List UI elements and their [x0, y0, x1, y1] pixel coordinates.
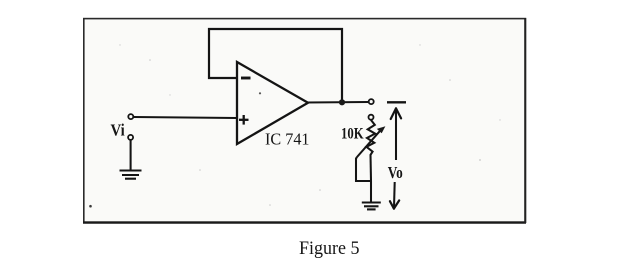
potentiometer R1 10K (zigzag body) — [366, 120, 375, 155]
op-amp U1 IC 741 — [237, 62, 308, 144]
svg-text:Vo: Vo — [388, 163, 403, 182]
pin label minus (inverting input) — [241, 77, 251, 80]
terminal output upper (open circle) — [369, 99, 374, 104]
svg-text:IC 741: IC 741 — [265, 129, 310, 148]
wire potentiometer bottom lead — [369, 155, 372, 182]
ground (input side) — [120, 171, 142, 179]
Vo measurement arrow up — [391, 108, 401, 160]
wire Vi lower terminal to ground — [130, 140, 132, 171]
svg-text:10K: 10K — [341, 126, 364, 143]
terminal Vi input (open circle) — [128, 114, 133, 119]
pin label plus (non-inverting input) — [239, 115, 249, 125]
wire wiper tail loop to bottom — [356, 157, 371, 181]
terminal output lower (open circle) — [369, 115, 374, 120]
terminal Vi ground side (open circle) — [128, 135, 133, 140]
node junction (feedback/output) — [339, 99, 345, 105]
wire feedback loop (output to inverting input) — [209, 29, 342, 103]
node Vo top reference bar — [387, 101, 406, 103]
ground (output side) — [362, 203, 381, 210]
wire output — [306, 101, 369, 104]
wire input to non-inverting pin — [134, 117, 238, 118]
svg-text:Vi: Vi — [111, 121, 126, 140]
Vo measurement arrow down — [390, 182, 399, 209]
svg-text:Figure 5: Figure 5 — [299, 238, 360, 259]
potentiometer R1 wiper arrow — [357, 126, 385, 157]
wire to ground (output side) — [370, 181, 372, 203]
